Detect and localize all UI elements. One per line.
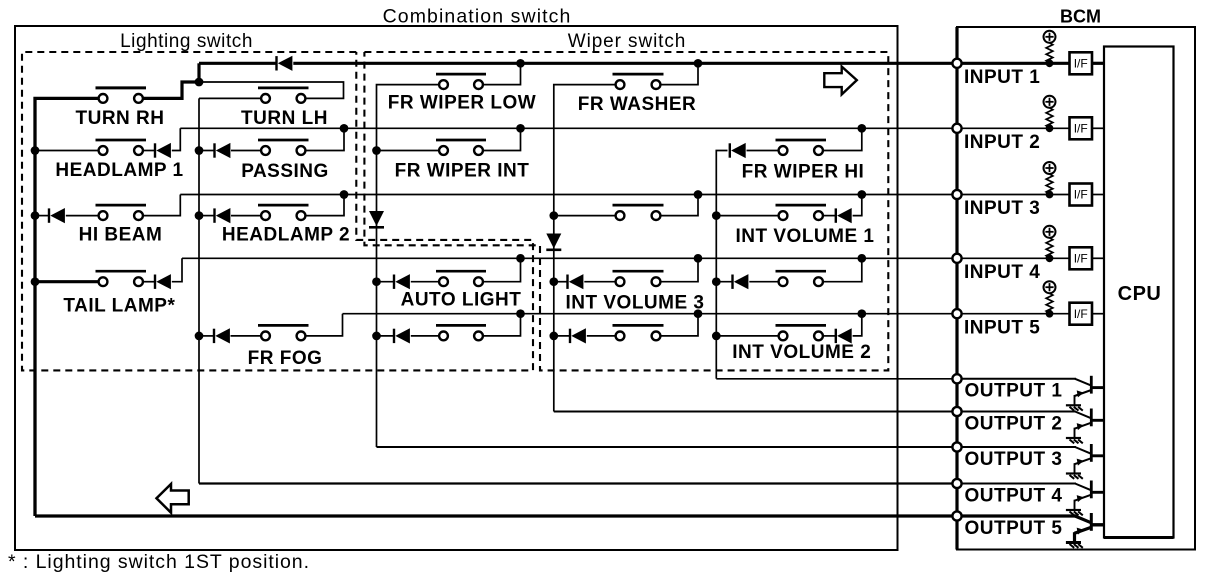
junction on INPUT 3 at x=861.8 [857,190,866,199]
svg-text:FR WASHER: FR WASHER [578,94,697,115]
wire INPUT 3 bus [180,194,952,196]
wire wiper volume 2 to INPUT 5 [660,314,698,336]
wire INT VOLUME 2 feed [716,335,778,337]
diode on column C pointing down [369,226,384,229]
wire column D top corner [554,85,616,412]
transistor Q2 base to CPU [1091,419,1104,422]
switch FR WIPER INT [436,139,486,142]
svg-text:TURN RH: TURN RH [76,108,165,129]
wire riser to INPUT 1 bus [197,63,200,82]
switch FR WIPER LOW [436,73,486,76]
wire INPUT 5 bus [343,313,953,315]
CPU box U1 [1104,47,1174,538]
ground for Q5 [1066,541,1081,544]
node OUTPUT 2 on BCM edge [952,407,961,416]
wire OUTPUT 5 to transistor [961,514,1076,517]
switch AUTO LIGHT [436,270,486,273]
svg-text:INT VOLUME 3: INT VOLUME 3 [565,293,704,314]
junction INT VOLUME 2 feed [712,332,721,341]
svg-text:TURN LH: TURN LH [241,108,328,129]
switch FR WASHER [613,73,664,76]
wire INT VOLUME 2 to INPUT 5 [853,314,862,336]
switch INT VOLUME 2 [776,324,827,327]
wire INT VOLUME 3 to INPUT 4 [660,258,698,281]
svg-text:INT VOLUME 1: INT VOLUME 1 [735,226,874,247]
node INPUT 4 on BCM edge [952,254,961,263]
diode on column D pointing down [546,249,561,252]
node INPUT 2 on BCM edge [952,124,961,133]
switch INT VOLUME 1 [776,204,827,207]
block arrow left (lighting flow) [157,484,189,513]
wire FR WIPER INT feed [377,150,440,152]
svg-text:I/F: I/F [1074,188,1088,202]
svg-text:PASSING: PASSING [241,161,329,182]
svg-text:FR WIPER HI: FR WIPER HI [742,161,865,182]
transistor Q1 collector [1075,379,1091,386]
svg-text:OUTPUT 4: OUTPUT 4 [965,485,1063,506]
wire FR WASHER to INPUT 1 [660,63,698,84]
junction on INPUT 4 at x=861.8 [857,254,866,263]
diode INT VOLUME 3 input [554,281,568,283]
transistor Q4 base bar [1090,481,1093,499]
ground for Q3 [1066,472,1081,474]
junction auto light 2 feed [372,332,381,341]
wire OUTPUT 2 to transistor [961,411,1076,413]
node OUTPUT 3 on BCM edge [952,442,961,451]
battery supply for INPUT 5 [1044,281,1056,293]
wire OUTPUT 5 bus [35,514,953,517]
wire OUTPUT 3 to transistor [961,446,1076,448]
switch wiper volume 2 (unlabeled) [613,324,664,327]
svg-text:Wiper switch: Wiper switch [568,31,686,52]
svg-text:INPUT 2: INPUT 2 [964,132,1040,153]
wire INPUT 2 into I/F [961,127,1069,129]
junction on INPUT 1 at x=520.5 [516,59,525,68]
svg-text:OUTPUT 1: OUTPUT 1 [965,381,1063,402]
BCM box [957,27,1195,550]
svg-text:CPU: CPU [1118,283,1162,305]
pull-up resistor for INPUT 3 [1046,174,1053,194]
switch FR FOG [258,324,309,327]
wire I/F 4 to CPU [1092,257,1104,259]
wire INT VOLUME 1 to INPUT 3 [853,195,862,216]
svg-text:* : Lighting switch 1ST positi: * : Lighting switch 1ST position. [8,551,310,573]
junction on INPUT 4 at x=520.5 [516,254,525,263]
junction on INPUT 4 at x=698 [694,254,703,263]
wire TAIL LAMP feed (thick) [35,280,99,283]
junction on INPUT 2 at x=344 [340,124,349,133]
ground for Q1 [1066,404,1081,406]
wire TAIL LAMP to INPUT 4 [172,258,182,281]
junction FR FOG feed [195,332,204,341]
node INPUT 5 on BCM edge [952,309,961,318]
wire FR WIPER LOW to INPUT 1 [483,63,521,84]
transistor Q4 base to CPU [1091,491,1104,494]
switch right volume (unlabeled) [776,270,827,273]
wire HEADLAMP 1 feed [35,150,99,152]
transistor Q2 collector [1075,412,1091,419]
wire INPUT 2 bus [180,127,952,129]
junction resistor to INPUT 4 [1046,254,1054,262]
wire FR FOG to INPUT 5 [305,314,342,336]
svg-text:I/F: I/F [1074,122,1088,136]
svg-text:I/F: I/F [1074,57,1088,71]
wire I/F 2 to CPU [1092,127,1104,129]
wire right volume switch to INPUT 4 [823,258,862,281]
wire FR WIPER INT to INPUT 2 [483,128,521,150]
transistor Q3 collector [1075,447,1091,454]
junction FR WIPER INT feed [372,146,381,155]
svg-text:HEADLAMP 2: HEADLAMP 2 [222,224,350,245]
pull-up resistor for INPUT 2 [1046,108,1053,128]
junction on INPUT 2 at x=520.5 [516,124,525,133]
junction AUTO LIGHT feed [372,277,381,286]
svg-text:INPUT 4: INPUT 4 [964,262,1040,283]
transistor Q3 emitter [1075,458,1092,464]
I/F box for INPUT 4 [1070,247,1093,269]
diode wiper volume 2 input [554,335,570,337]
svg-text:FR WIPER LOW: FR WIPER LOW [388,93,536,114]
junction resistor to INPUT 5 [1046,310,1054,318]
wire INPUT 5 into I/F [961,313,1069,315]
svg-text:FR FOG: FR FOG [248,348,323,369]
diode PASSING input [213,143,215,157]
wire I/F 1 to CPU [1092,62,1104,65]
wire OUTPUT 1 bus [716,378,952,380]
junction HEADLAMP 1 feed [31,146,40,155]
block arrow right (wiper flow) [824,67,857,95]
transistor Q3 base to CPU [1091,454,1104,457]
junction on INPUT 5 at x=520.5 [516,309,525,318]
node INPUT 1 on BCM edge [952,59,961,68]
transistor Q1 emitter [1075,390,1092,396]
wire OUTPUT 1 to transistor [961,378,1076,380]
wiper switch dashed box [364,52,888,370]
node OUTPUT 1 on BCM edge [952,374,961,383]
svg-text:OUTPUT 2: OUTPUT 2 [965,413,1063,434]
switch FR WIPER HI [776,139,827,142]
svg-text:FR WIPER INT: FR WIPER INT [395,161,530,182]
diode TAIL LAMP output [143,281,155,283]
switch HI BEAM [96,204,147,207]
wire TURN LH left to column [199,97,261,99]
I/F box for INPUT 1 [1070,52,1093,74]
diode HI BEAM input [35,215,49,217]
svg-text:BCM: BCM [1060,7,1101,27]
junction wiper volume 2 feed [549,332,558,341]
wire main lighting feed column [35,98,99,516]
svg-text:HI BEAM: HI BEAM [79,224,163,245]
switch PASSING [258,139,309,142]
battery supply for INPUT 2 [1044,96,1056,108]
pull-up resistor for INPUT 1 [1046,43,1053,63]
node junction at 199,82 [195,78,204,87]
diode FR FOG input [199,335,214,337]
switch TURN RH [96,86,147,89]
battery supply for INPUT 3 [1044,162,1056,174]
wire TURN LH feed from junction [199,82,344,98]
transistor Q3 base bar [1090,444,1093,462]
svg-text:OUTPUT 3: OUTPUT 3 [965,449,1063,470]
svg-text:I/F: I/F [1074,252,1088,266]
svg-text:INPUT 3: INPUT 3 [964,198,1040,219]
transistor Q4 emitter [1075,495,1092,501]
node INPUT 3 on BCM edge [952,190,961,199]
wire auto light 2 to INPUT 5 [483,314,521,336]
wire wiper mid switch feed [554,215,616,217]
diode FR WIPER HI input [729,143,731,157]
ground for Q4 [1066,509,1081,511]
transistor Q2 emitter [1075,423,1092,429]
pull-up resistor for INPUT 4 [1046,238,1053,258]
wire AUTO LIGHT to INPUT 4 [483,258,521,281]
wire mid switch to INPUT 3 [660,195,698,216]
transistor Q5 base bar [1090,513,1093,531]
wire column C top corner [377,85,440,447]
svg-text:AUTO LIGHT: AUTO LIGHT [401,290,522,311]
wire INPUT 4 bus [182,257,953,259]
switch HEADLAMP 2 [258,204,309,207]
transistor Q1 base to CPU [1091,386,1104,389]
switch wiper volume (unlabeled) [613,204,664,207]
ground for Q2 [1066,437,1081,439]
junction INT VOLUME 1 feed [712,211,721,220]
wire PASSING to INPUT 2 [305,128,344,150]
svg-text:INPUT 5: INPUT 5 [964,317,1040,338]
switch TAIL LAMP [96,270,147,273]
svg-text:INT VOLUME 2: INT VOLUME 2 [732,342,871,363]
junction resistor to INPUT 1 [1046,59,1054,67]
diode INT VOLUME 1 output [823,215,836,217]
wire HI BEAM to INPUT 3 [143,195,180,216]
transistor Q4 collector [1075,484,1091,491]
wire HEADLAMP 2 to INPUT 3 [305,195,344,216]
wire INPUT 3 into I/F [961,194,1069,196]
diode D1 on INPUT 1 bus [275,56,277,70]
diode right volume switch input [716,281,732,283]
wire INPUT 4 into I/F [961,257,1069,259]
svg-text:Combination switch: Combination switch [383,6,572,28]
wire OUTPUT 2 bus [554,411,953,413]
junction TAIL LAMP feed [31,277,40,286]
wire column E top corner [716,151,727,379]
svg-text:INPUT 1: INPUT 1 [964,67,1040,88]
svg-text:I/F: I/F [1074,307,1088,321]
wire OUTPUT 4 bus [199,482,953,484]
battery supply for INPUT 1 [1044,31,1056,43]
wire OUTPUT 3 bus [377,446,953,448]
junction right volume switch feed [712,277,721,286]
battery supply for INPUT 4 [1044,226,1056,238]
svg-text:HEADLAMP 1: HEADLAMP 1 [55,160,183,181]
junction on INPUT 5 at x=698 [694,309,703,318]
transistor Q2 base bar [1090,409,1093,427]
switch INT VOLUME 3 [613,270,664,273]
wire I/F 5 to CPU [1092,313,1104,315]
junction on INPUT 2 at x=861.8 [857,124,866,133]
transistor Q5 collector [1075,516,1091,523]
junction wiper mid switch feed [549,211,558,220]
junction HI BEAM feed [31,211,40,220]
node OUTPUT 5 on BCM edge [952,511,961,520]
wire INT VOLUME 1 feed [716,215,778,217]
wire column B (x=199) [198,98,200,483]
diode HEADLAMP 1 output [143,150,155,152]
wire FR WIPER HI to INPUT 2 [823,128,862,150]
junction resistor to INPUT 3 [1046,191,1054,199]
wire INPUT 1 node to I/F [961,62,1069,65]
junction resistor to INPUT 2 [1046,124,1054,132]
junction HEADLAMP 2 feed [195,211,204,220]
diode auto light 2 input [377,335,395,337]
wire TURN RH to bus step [143,82,199,98]
I/F box for INPUT 5 [1070,303,1093,325]
wire I/F 3 to CPU [1092,194,1104,196]
switch TURN LH [258,87,309,90]
I/F box for INPUT 2 [1070,117,1093,139]
svg-text:TAIL LAMP*: TAIL LAMP* [63,295,175,316]
pull-up resistor for INPUT 5 [1046,293,1053,313]
lighting switch dashed box [22,52,533,370]
node OUTPUT 4 on BCM edge [952,479,961,488]
I/F box for INPUT 3 [1070,184,1093,206]
wire HEADLAMP 1 to INPUT 2 [172,128,181,150]
wire INPUT 1 bus left segment [199,62,277,65]
svg-text:OUTPUT 5: OUTPUT 5 [965,518,1063,539]
diode HEADLAMP 2 input [199,215,215,217]
diode AUTO LIGHT input [377,281,395,283]
junction INT VOLUME 3 feed [549,277,558,286]
transistor Q5 emitter [1075,527,1092,533]
switch auto light 2 (unlabeled) [436,324,486,327]
junction on INPUT 5 at x=861.8 [857,309,866,318]
wire OUTPUT 4 to transistor [961,483,1076,485]
combination switch outer box [15,26,898,550]
wire INPUT 1 bus [293,62,952,65]
junction on INPUT 3 at x=344 [340,190,349,199]
junction on INPUT 1 at x=698 [694,59,703,68]
switch HEADLAMP 1 [96,139,147,142]
transistor Q5 base to CPU [1091,523,1104,526]
transistor Q1 base bar [1090,376,1093,394]
svg-text:Lighting switch: Lighting switch [120,31,253,52]
junction PASSING feed [195,146,204,155]
junction on INPUT 3 at x=698 [694,190,703,199]
diode INT VOLUME 2 output [823,335,836,337]
